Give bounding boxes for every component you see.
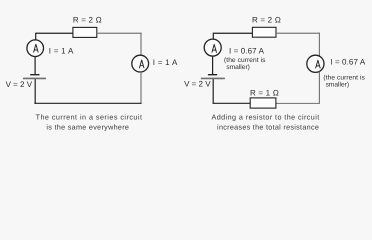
- svg-text:(the current is: (the current is: [224, 57, 266, 64]
- wire right vertical upper (gray): [140, 33, 142, 56]
- resistor R = 2 ohm (top, right circuit): [252, 27, 276, 37]
- svg-text:R = 2 Ω: R = 2 Ω: [73, 15, 102, 24]
- resistor R = 2 ohm (top, left circuit): [73, 27, 97, 37]
- svg-text:smaller): smaller): [326, 82, 349, 89]
- wire left vertical lower: [34, 78, 36, 104]
- wire top-right horizontal (gray, right circuit): [276, 32, 320, 34]
- svg-text:Adding a resistor to the circu: Adding a resistor to the circuit: [212, 113, 320, 122]
- svg-text:smaller): smaller): [226, 64, 249, 71]
- ammeter A1 (left, left circuit): [27, 40, 44, 57]
- battery V2 long plate: [201, 77, 225, 79]
- svg-text:V = 2 V: V = 2 V: [6, 80, 33, 89]
- wire bottom horizontal: [34, 102, 141, 104]
- wire right vertical lower (gray, right circuit): [318, 72, 320, 104]
- wire top-left horizontal: [36, 32, 73, 34]
- wire top-left horizontal (right circuit): [213, 32, 252, 34]
- ammeter A3 (left, right circuit): [204, 39, 221, 56]
- svg-text:The current in a series circui: The current in a series circuit: [36, 113, 143, 122]
- wire bottom left horizontal (right circuit): [213, 102, 251, 104]
- wire left vertical upper: [35, 33, 37, 40]
- battery V1 short plate: [30, 74, 39, 76]
- wire left vertical lower (right circuit): [212, 78, 214, 103]
- wire left vertical upper (right circuit): [212, 33, 214, 39]
- wire battery to ammeter A1: [34, 57, 36, 75]
- wire top-right horizontal (gray): [97, 32, 142, 34]
- wire battery to ammeter A3: [212, 56, 214, 75]
- svg-text:I = 1 A: I = 1 A: [49, 46, 74, 55]
- resistor R = 1 ohm (bottom, right circuit): [250, 98, 276, 108]
- svg-text:increases the total resistance: increases the total resistance: [217, 122, 319, 131]
- wire bottom right horizontal (gray): [276, 102, 320, 104]
- battery V1 long plate: [23, 77, 46, 79]
- wire right vertical lower (gray): [140, 72, 142, 103]
- svg-text:is the same everywhere: is the same everywhere: [46, 123, 129, 132]
- ammeter A4 (right, right circuit): [307, 55, 324, 72]
- svg-text:I = 0.67 A: I = 0.67 A: [229, 46, 265, 55]
- svg-text:I = 0.67 A: I = 0.67 A: [330, 57, 366, 66]
- ammeter A2 (right, left circuit): [132, 55, 149, 72]
- svg-text:V = 2 V: V = 2 V: [184, 80, 211, 89]
- svg-text:I = 1 A: I = 1 A: [153, 58, 178, 67]
- svg-text:R = 1 Ω: R = 1 Ω: [250, 88, 279, 97]
- battery V2 short plate: [208, 74, 217, 76]
- svg-text:(the current is: (the current is: [323, 74, 365, 81]
- wire right vertical upper (gray, right circuit): [318, 33, 320, 56]
- svg-text:R = 2 Ω: R = 2 Ω: [252, 15, 281, 24]
